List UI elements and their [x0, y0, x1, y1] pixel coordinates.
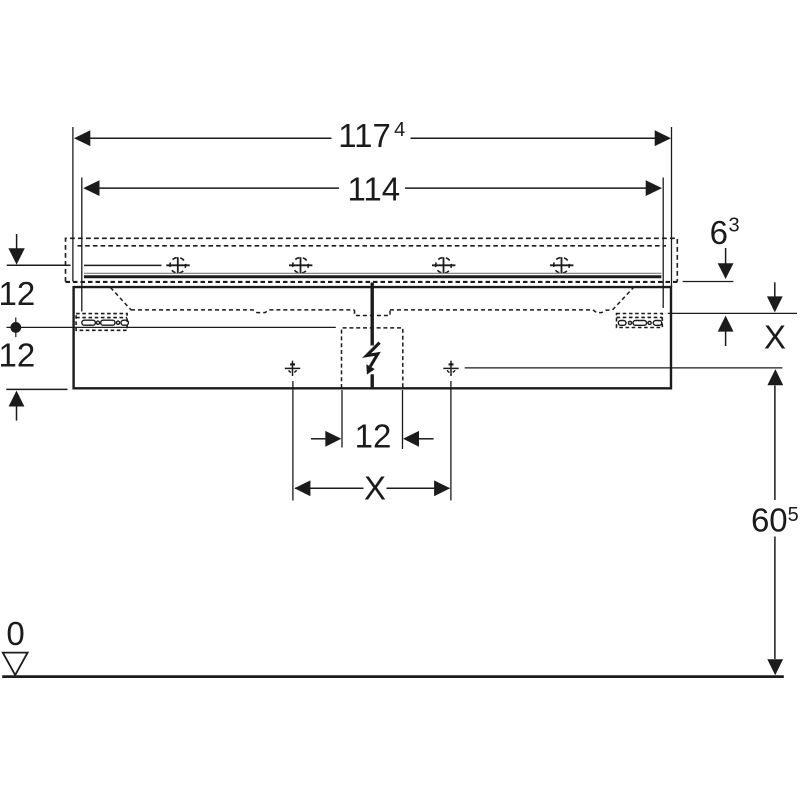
- basin drain dashed notch: [355, 310, 391, 316]
- dimension 114 line: [99, 187, 339, 189]
- bottom dimension extension line box right: [402, 390, 404, 449]
- svg-text:114: 114: [347, 170, 400, 207]
- dimension 117.4 right arrowhead: [655, 130, 671, 146]
- rail level reference line: [7, 326, 336, 328]
- svg-text:6: 6: [710, 214, 728, 251]
- svg-text:117: 117: [338, 117, 391, 154]
- dimension 114 left arrowhead: [83, 180, 99, 196]
- svg-text:4: 4: [394, 119, 405, 141]
- right mounting rail dashed box: [617, 314, 663, 328]
- dimension X right down arrow: [774, 282, 776, 297]
- svg-text:60: 60: [751, 502, 788, 539]
- basin bottom dashed contour: [131, 310, 355, 313]
- right reference line at cabinet bottom level: [465, 367, 783, 369]
- bottom dimension extension line screw left: [292, 381, 294, 501]
- washtop front edge thick line: [84, 275, 661, 278]
- basin left dashed diagonal: [111, 288, 132, 310]
- svg-text:12: 12: [0, 336, 35, 373]
- dimension X bottom right arrowhead: [434, 480, 450, 496]
- left down arrow: [16, 234, 18, 250]
- svg-text:X: X: [764, 319, 786, 356]
- electrical connection dashed box: [342, 328, 403, 388]
- fastening screw 1: [166, 257, 189, 273]
- dimension 60.5 down arrowhead: [767, 659, 783, 675]
- left reference line (top of washtop level): [7, 264, 71, 266]
- bottom dimension extension line box left: [341, 390, 343, 448]
- dimension 117.4 extension line right: [671, 127, 673, 287]
- floor line: [2, 675, 784, 678]
- left bottom reference line: [6, 388, 67, 390]
- left up arrow: [9, 391, 25, 407]
- svg-text:X: X: [364, 469, 386, 506]
- rail level reference line right: [668, 312, 797, 314]
- lightning bolt: [367, 343, 380, 367]
- left rail slots: [82, 320, 129, 325]
- dimension 12 bottom right arrow: [403, 431, 419, 447]
- washtop underside reference line right: [683, 281, 734, 283]
- dimension 12 bottom left arrow: [311, 438, 327, 440]
- dimension X bottom left arrowhead: [294, 480, 310, 496]
- floor level triangle: [3, 653, 28, 675]
- niche dashed outline box: [66, 238, 678, 281]
- washtop top dashed line: [78, 245, 667, 247]
- cabinet bottom screw left: [285, 361, 300, 376]
- basin right dashed diagonal: [613, 288, 634, 310]
- washtop thin inner line: [84, 272, 661, 274]
- fastening screw 3: [432, 257, 455, 273]
- dimension 60.5 up arrowhead: [767, 369, 783, 385]
- dimension 114 extension line left: [81, 178, 83, 312]
- dimension 114 extension line right: [662, 178, 664, 309]
- right rail slots: [618, 321, 661, 326]
- dimension 114 right arrowhead: [646, 180, 662, 196]
- bottom dimension extension line screw right: [450, 381, 452, 501]
- dimension X right up arrow: [718, 316, 734, 332]
- svg-text:12: 12: [0, 275, 35, 312]
- dimension 117.4 left arrowhead: [74, 130, 90, 146]
- dimension 6.3 down arrow: [725, 248, 727, 265]
- svg-text:3: 3: [728, 215, 739, 237]
- fastening screw 4: [550, 257, 573, 273]
- power cable: [371, 283, 374, 346]
- svg-text:5: 5: [788, 504, 799, 526]
- cabinet outline: [72, 286, 672, 390]
- screw row reference line: [84, 264, 162, 266]
- dimension 60.5 line: [774, 386, 776, 501]
- svg-text:0: 0: [6, 615, 24, 652]
- cabinet bottom screw right: [443, 361, 458, 376]
- fastening screw 2: [289, 257, 312, 273]
- washtop bottom dashed line: [66, 281, 678, 283]
- left mounting rail dashed box: [76, 314, 127, 331]
- dimension 117.4 extension line left: [72, 127, 74, 282]
- rail level reference dot: [10, 322, 21, 333]
- dimension 117.4 line: [90, 137, 332, 139]
- dimension X bottom line: [295, 487, 364, 489]
- svg-text:12: 12: [355, 417, 392, 454]
